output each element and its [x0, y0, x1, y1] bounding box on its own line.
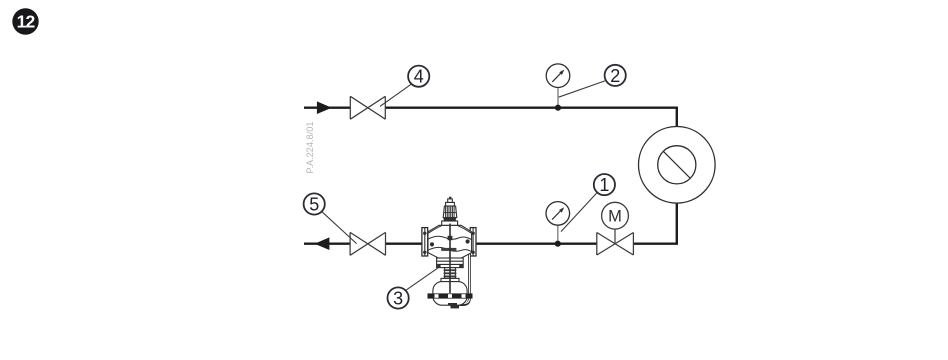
callout 3 leader [406, 267, 439, 290]
ridged bonnet bell [443, 206, 457, 218]
valve body [428, 225, 472, 258]
center stem line [449, 224, 451, 293]
svg-text:5: 5 [309, 195, 319, 215]
differential pressure controller valve (3) [422, 197, 476, 309]
neck with ribs [445, 268, 456, 279]
svg-text:M: M [608, 208, 622, 226]
svg-text:1: 1 [599, 175, 609, 195]
impulse tube [456, 250, 470, 305]
pressure gauge (2) [546, 64, 570, 108]
pressure gauge (1) [546, 202, 570, 244]
callout 4 leader [380, 84, 411, 106]
callout 1 leader [561, 192, 597, 231]
wire return pipe: controller flange to valve 5 [386, 242, 424, 244]
figure badge 12 [12, 8, 38, 34]
callout 4 [408, 66, 429, 87]
callout 5 leader [322, 212, 357, 244]
motorized valve body [597, 233, 634, 256]
svg-text:P.A.224.8/01: P.A.224.8/01 [305, 122, 315, 174]
top cap [446, 202, 455, 206]
callout 3 [388, 287, 409, 308]
actuator dome [433, 282, 467, 306]
node junction bottom [555, 241, 561, 247]
callout 1 [594, 174, 615, 195]
left flange [422, 228, 428, 256]
flow arrow in [317, 101, 332, 114]
callout 2 leader [559, 81, 605, 97]
svg-text:3: 3 [393, 289, 403, 309]
shut-off valve (4) [350, 96, 385, 119]
wire supply pipe left segment [304, 106, 350, 108]
shut-off valve (5) [350, 232, 385, 255]
diaphragm band [428, 293, 473, 298]
svg-text:2: 2 [610, 66, 620, 86]
bonnet collar [444, 218, 456, 221]
callout 2 [605, 65, 626, 86]
spring/rib block under body [437, 258, 464, 268]
bonnet plate [442, 221, 458, 225]
right flange [470, 228, 476, 256]
wire return pipe left segment [304, 242, 350, 244]
callout 5 [304, 193, 325, 214]
wire supply pipe right segment with corner [385, 108, 676, 127]
motorized control valve actuator M [602, 202, 629, 243]
dome lip [441, 278, 459, 281]
wire return pipe: motor valve to controller flange [476, 242, 596, 244]
consumer / heat exchanger circle [639, 127, 716, 204]
svg-text:12: 12 [17, 12, 36, 32]
svg-text:4: 4 [414, 67, 424, 87]
bottom connector [448, 303, 457, 306]
wire return riser below consumer [634, 203, 677, 244]
node junction top [555, 105, 561, 111]
flow arrow out [315, 237, 330, 250]
